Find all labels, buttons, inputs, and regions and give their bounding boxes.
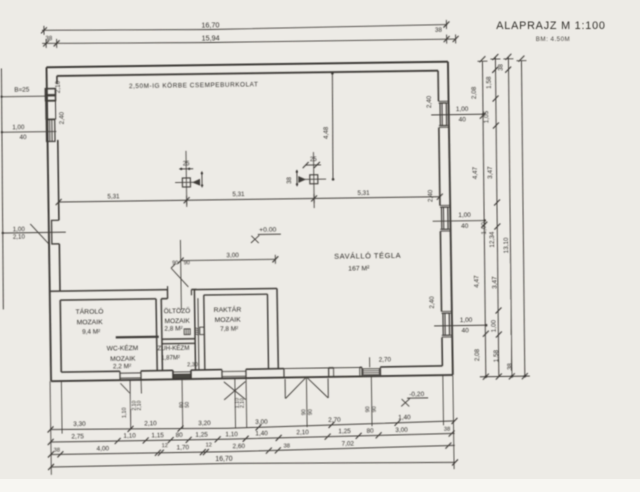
svg-text:1,10: 1,10 [225, 431, 238, 438]
W3 exterior cross marks [224, 382, 246, 400]
svg-text:1,40: 1,40 [255, 430, 268, 437]
svg-text:38: 38 [284, 443, 291, 449]
inner wall bottom (segments) [61, 370, 120, 373]
svg-text:2,40: 2,40 [427, 189, 434, 202]
svg-text:2,60: 2,60 [232, 443, 245, 450]
svg-text:1,58: 1,58 [493, 349, 500, 362]
svg-text:2,70: 2,70 [328, 417, 341, 424]
column K1 dim 38 arrow [201, 171, 203, 187]
svg-text:-0,20: -0,20 [409, 391, 424, 398]
left entrance door swing diagonal [30, 224, 49, 245]
bottom chain 4 [51, 460, 455, 468]
leader line B=25 [1, 95, 54, 98]
svg-text:3,00: 3,00 [395, 427, 408, 434]
svg-text:15,94: 15,94 [202, 33, 220, 42]
svg-text:ZUH-KÉZM: ZUH-KÉZM [157, 345, 189, 352]
svg-text:16,70: 16,70 [215, 456, 233, 463]
right wall window 3 [441, 310, 451, 312]
svg-text:1,15: 1,15 [151, 432, 164, 439]
leader 1,00/40 right window 2 [433, 219, 486, 222]
svg-text:B=25: B=25 [14, 86, 30, 93]
right chain v4 [520, 61, 525, 376]
dim 3,00 oltozo door to column [181, 259, 276, 260]
svg-text:BM: 4.50M: BM: 4.50M [536, 36, 570, 43]
svg-text:1,05: 1,05 [483, 110, 490, 123]
leader line 1,00/40 left window [2, 130, 57, 133]
svg-text:2,08: 2,08 [474, 348, 481, 361]
svg-text:1,58: 1,58 [486, 76, 493, 89]
column K2 [310, 175, 318, 184]
svg-text:5,31: 5,31 [107, 193, 120, 200]
svg-text:WC-KÉZM: WC-KÉZM [107, 343, 139, 352]
svg-text:2,10: 2,10 [55, 80, 62, 93]
svg-text:1,10: 1,10 [123, 433, 136, 440]
svg-text:90: 90 [372, 406, 378, 412]
svg-text:3,47: 3,47 [487, 166, 494, 179]
svg-text:80: 80 [366, 428, 374, 435]
svg-text:TÁROLÓ: TÁROLÓ [75, 307, 103, 316]
svg-text:1,00: 1,00 [460, 317, 473, 324]
svg-text:1,00: 1,00 [481, 222, 488, 235]
svg-text:MOZAIK: MOZAIK [164, 318, 190, 325]
svg-text:1,25: 1,25 [338, 428, 351, 435]
left vertical dimension chain line [0, 68, 5, 309]
svg-text:9,4 M²: 9,4 M² [82, 328, 100, 335]
inner wall top [57, 71, 438, 76]
svg-text:40: 40 [20, 134, 28, 141]
svg-text:1,00: 1,00 [491, 319, 498, 332]
svg-text:2,10: 2,10 [144, 421, 157, 428]
svg-text:13,10: 13,10 [503, 237, 510, 253]
svg-text:4,47: 4,47 [473, 275, 480, 288]
column K1 dim 25 [179, 168, 193, 170]
svg-text:1,87M²: 1,87M² [161, 355, 180, 361]
leader line door 1,00/2,10 [3, 231, 66, 234]
partition oltozo/zuh (double) [162, 338, 195, 340]
door threshold thin line [284, 367, 329, 370]
right chains bottom closing line [480, 375, 530, 378]
right chain v2 [494, 57, 499, 376]
vertical dim 4,48 from top wall to column K2 [331, 73, 333, 180]
svg-text:2,10: 2,10 [296, 429, 309, 436]
left wall small window B=25 (two bars) [45, 89, 55, 95]
shaft wall oltozo/raktar [194, 289, 195, 369]
right wall window 1 [438, 100, 448, 102]
svg-text:MOZAIK: MOZAIK [77, 319, 104, 326]
extension lines to bottom chains [50, 381, 51, 474]
svg-text:38: 38 [498, 63, 504, 70]
shaft hatch [195, 328, 198, 329]
svg-text:2,30: 2,30 [187, 362, 198, 368]
svg-text:2,40: 2,40 [426, 95, 433, 108]
W1 swing diagonal [120, 383, 129, 393]
svg-text:2,40: 2,40 [59, 111, 66, 124]
right wall window 2 [440, 204, 450, 206]
svg-text:38: 38 [287, 176, 293, 183]
partition wall hall/block outer line [50, 290, 168, 292]
double door swing triangles [284, 379, 286, 398]
extension line door edge down [179, 240, 182, 310]
svg-text:2,8 M²: 2,8 M² [164, 326, 183, 333]
interior dimension line 5,31 row [59, 197, 440, 202]
dimension line 15,94 (top inner) [42, 38, 456, 45]
svg-text:1,00: 1,00 [458, 212, 471, 219]
window W4 bottom (hatched) [361, 367, 363, 376]
svg-text:1,00: 1,00 [12, 124, 25, 131]
svg-text:2,75: 2,75 [71, 433, 84, 440]
svg-text:40: 40 [461, 223, 469, 230]
inner wall right (segments between windows) [437, 71, 439, 102]
right chain v1 [481, 61, 486, 376]
svg-text:1,00: 1,00 [13, 226, 26, 233]
svg-text:4,47: 4,47 [472, 166, 479, 179]
svg-text:4,48: 4,48 [323, 126, 330, 139]
outer wall bottom door gap jambs [283, 369, 285, 378]
outer wall right [448, 62, 453, 375]
svg-text:3,47: 3,47 [491, 276, 498, 289]
svg-text:7,8 M²: 7,8 M² [220, 326, 238, 333]
niche box right of shaft [200, 327, 204, 334]
svg-text:1,70: 1,70 [176, 444, 189, 451]
column K1 [182, 178, 190, 187]
oltozo door swing [171, 268, 188, 287]
svg-text:RAKTÁR: RAKTÁR [214, 305, 242, 314]
svg-text:90: 90 [184, 260, 190, 266]
svg-text:167 M²: 167 M² [348, 265, 370, 272]
svg-text:2,2 M²: 2,2 M² [113, 363, 132, 370]
svg-text:38: 38 [508, 363, 514, 370]
svg-text:SAVÁLLÓ TÉGLA: SAVÁLLÓ TÉGLA [334, 251, 401, 261]
porch thin wall segment [334, 367, 360, 376]
svg-text:38: 38 [54, 448, 61, 454]
svg-text:38: 38 [435, 27, 443, 34]
partition wall hall/block inner line [60, 299, 156, 300]
svg-text:MOZAIK: MOZAIK [215, 317, 242, 324]
svg-text:3,20: 3,20 [198, 420, 211, 427]
column K2 dim 25 [306, 164, 321, 166]
right chain v3 [507, 57, 512, 376]
svg-text:1,40: 1,40 [398, 414, 411, 421]
svg-text:25: 25 [183, 161, 190, 167]
svg-text:ÖLTÖZŐ: ÖLTÖZŐ [164, 306, 191, 315]
svg-text:2,10: 2,10 [137, 400, 143, 410]
left wall window lower with glass lines [46, 120, 55, 142]
outer wall left [46, 67, 51, 381]
svg-text:3,30: 3,30 [73, 421, 86, 428]
svg-text:2,70: 2,70 [379, 357, 392, 364]
window W1 bottom (plain) [119, 371, 121, 380]
svg-text:12: 12 [162, 443, 168, 449]
opening W3 bottom with sills [221, 370, 223, 379]
svg-text:3,00: 3,00 [226, 252, 239, 259]
svg-text:2,10: 2,10 [13, 234, 26, 241]
svg-text:90: 90 [308, 409, 314, 415]
svg-text:2,08: 2,08 [471, 86, 478, 99]
left entrance door recess [52, 220, 60, 244]
svg-text:40: 40 [459, 116, 467, 123]
WC top wall [116, 336, 159, 339]
raktar walls [194, 289, 277, 290]
svg-text:38: 38 [45, 35, 53, 42]
svg-text:5,31: 5,31 [232, 191, 245, 198]
bottom chain 2 [51, 433, 455, 442]
svg-text:1,25: 1,25 [195, 432, 208, 439]
outer wall top [46, 62, 447, 68]
svg-text:ALAPRAJZ M 1:100: ALAPRAJZ M 1:100 [496, 20, 605, 32]
svg-text:1,00: 1,00 [456, 106, 469, 113]
oltozo door jambs in partition [166, 290, 168, 299]
svg-text:2,40: 2,40 [429, 296, 436, 309]
inner wall left (segments) [56, 76, 58, 84]
window W2 bottom (dark sill bar) [172, 370, 174, 379]
svg-text:2,10: 2,10 [240, 398, 246, 408]
svg-text:25: 25 [310, 157, 317, 163]
svg-text:16,70: 16,70 [201, 20, 219, 29]
svg-text:40: 40 [462, 327, 470, 334]
column K2 dim 38 arrow [296, 170, 298, 186]
svg-text:90: 90 [301, 409, 307, 415]
washbasin fixture in oltozo [184, 329, 190, 335]
svg-text:4,00: 4,00 [97, 446, 110, 453]
svg-text:MOZAIK: MOZAIK [110, 355, 136, 362]
dimension line 16,70 (top overall) [42, 24, 447, 31]
W1 right jamb stub [140, 380, 142, 394]
partition tarolo/oltozo (double) [156, 299, 157, 371]
svg-text:1,10: 1,10 [122, 407, 128, 418]
svg-text:38: 38 [444, 427, 451, 433]
svg-text:80: 80 [176, 432, 184, 439]
svg-text:5,31: 5,31 [357, 190, 370, 197]
leader 1,00/40 right window 3 [434, 324, 487, 327]
bottom chain 1 [50, 421, 454, 431]
svg-text:50: 50 [185, 402, 191, 408]
svg-text:3,00: 3,00 [255, 419, 268, 426]
svg-text:12: 12 [206, 442, 212, 448]
outer wall bottom [51, 375, 453, 381]
svg-text:12,34: 12,34 [489, 231, 496, 247]
svg-text:90: 90 [365, 406, 371, 412]
left wall window middle panel [46, 101, 56, 119]
svg-text:7,02: 7,02 [341, 440, 354, 447]
leader 1,00/40 right window 1 [431, 113, 484, 116]
bottom chain 3 [51, 445, 455, 454]
svg-text:+0.00: +0.00 [259, 226, 277, 233]
